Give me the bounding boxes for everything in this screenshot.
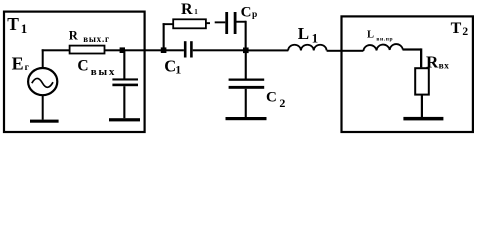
box T2 [342,16,473,132]
label Cvyh [77,58,116,78]
wire branch up [163,23,165,50]
capacitor Cp [225,12,236,34]
source Eg [28,68,57,95]
wire node1 to C1 [164,49,184,51]
svg-text:L: L [367,30,374,41]
svg-text:С: С [266,90,277,106]
svg-text:1: 1 [312,31,319,46]
box T1 [4,12,145,132]
svg-text:1: 1 [194,8,198,16]
svg-text:1: 1 [21,21,28,36]
wire source bottom [42,95,44,120]
wire source top [42,49,44,69]
svg-text:вых.г: вых.г [83,34,110,44]
svg-text:R: R [181,1,193,18]
label R1 [181,1,198,18]
label C2 [266,90,285,110]
wire Lvn to corner [403,48,422,50]
svg-text:Е: Е [12,54,24,74]
wire main to node [105,49,164,51]
svg-text:вн.пр: вн.пр [376,37,393,43]
svg-text:2: 2 [462,26,468,38]
svg-text:Т: Т [7,14,19,34]
ground Rvh [403,117,443,121]
wire Rvh bottom [421,95,423,117]
label Rvn.g [69,28,110,44]
resistor Rvh [415,68,429,94]
svg-text:2: 2 [279,96,285,110]
svg-text:Т: Т [451,20,462,37]
ground C2 [226,117,267,120]
ground Cvyh [109,118,140,121]
svg-text:С: С [77,58,88,75]
node 2 [243,48,249,54]
svg-text:р: р [252,10,257,20]
label C1 [164,56,181,76]
wire branch down [245,21,247,51]
resistor R1 [173,19,206,28]
label T1 [7,14,27,36]
capacitor Cvyh [112,51,138,118]
wire L1 to T2 [327,50,364,52]
label Cp [241,4,258,20]
wire stub after R1 [206,22,210,24]
wire after Cp [237,21,247,23]
wire node2 to L1 [247,49,288,51]
svg-text:г: г [25,63,30,73]
node Cvyh junction [120,47,125,53]
label Lvn [367,30,393,43]
node 1 [161,47,167,53]
wire corner down [420,48,422,67]
svg-text:L: L [298,24,309,43]
resistor Rvn.g [70,46,105,54]
svg-text:вх: вх [439,61,450,71]
label Eg [12,54,30,74]
label Rvh [426,53,449,72]
svg-text:1: 1 [175,63,181,77]
inductor Lvn [363,44,402,51]
inductor L1 [288,45,326,51]
wire branch top left [163,23,174,25]
svg-text:вых: вых [91,66,116,78]
label L1 [298,24,318,45]
ground Eg [30,120,59,123]
svg-text:R: R [426,53,439,72]
svg-text:R: R [69,28,79,42]
svg-text:С: С [241,4,252,20]
capacitor C2 [229,51,265,117]
wire C1 to node2 [193,49,246,51]
wire main left [42,49,70,51]
wire dash before Cp [215,21,226,23]
capacitor C1 [184,41,193,57]
label T2 [451,20,469,38]
